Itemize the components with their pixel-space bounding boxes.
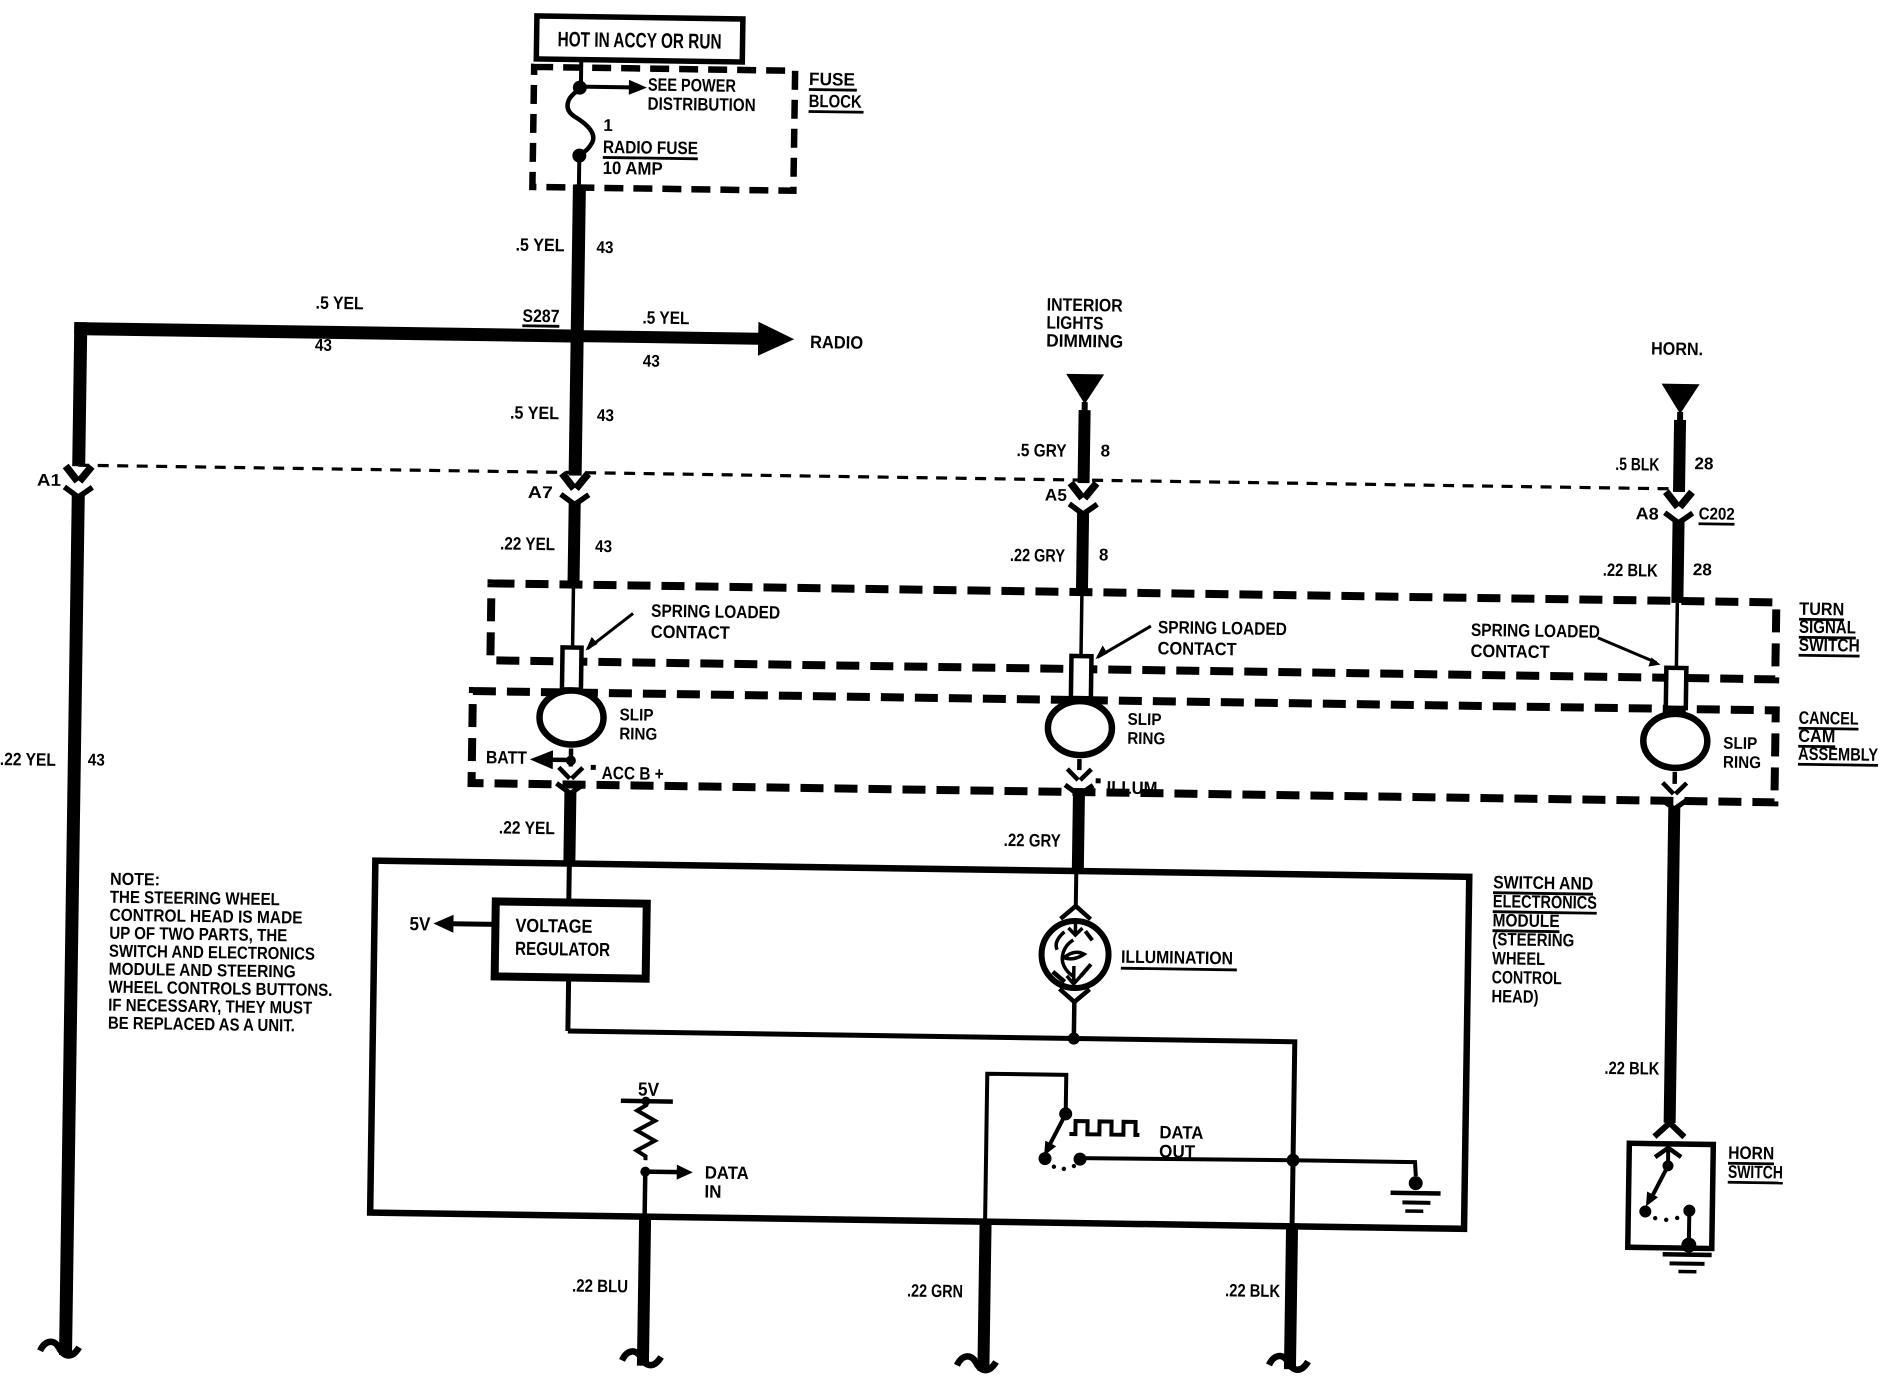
svg-text:5V: 5V: [409, 914, 431, 935]
svg-text:28: 28: [1694, 454, 1713, 473]
connector A8 / C202: [1636, 491, 1735, 524]
svg-text:HEAD): HEAD): [1491, 986, 1538, 1007]
wire: horizontal bus to right: [565, 1031, 1295, 1223]
node: data out junction: [1286, 1154, 1299, 1167]
switch S1 arm with arrowhead: [1044, 1114, 1066, 1156]
switch S1 contact node left: [1038, 1152, 1051, 1165]
node: fuse bottom junction: [572, 148, 586, 162]
wire: regulator bottom to bus: [565, 978, 571, 1031]
connector exit 3: [1660, 783, 1688, 809]
off-page hook left wire: [40, 1342, 79, 1356]
svg-text:A8: A8: [1636, 504, 1659, 523]
svg-text:SLIP: SLIP: [619, 705, 653, 725]
svg-text:C202: C202: [1699, 504, 1735, 524]
svg-text:1: 1: [603, 116, 613, 135]
label ILLUMINATION: [1121, 947, 1237, 970]
label spring loaded contact 2 + leader: [1095, 616, 1287, 662]
node: fuse top junction: [573, 80, 587, 94]
svg-text:43: 43: [596, 238, 613, 257]
switch S1 frame wires: [985, 1074, 1066, 1223]
svg-text:.5 YEL: .5 YEL: [510, 403, 559, 424]
connector exit 1 (ACC B+): [556, 767, 584, 793]
svg-text:CONTACT: CONTACT: [1470, 641, 1549, 662]
wire: .22 BLK to horn switch: [1670, 807, 1675, 1123]
label .5 YEL 43 (upper): [515, 235, 613, 257]
svg-text:.22 GRN: .22 GRN: [907, 1281, 963, 1302]
wire: lamp to bus + junction: [1068, 1002, 1081, 1045]
svg-text:FUSE: FUSE: [809, 69, 855, 90]
svg-text:.22 YEL: .22 YEL: [500, 533, 555, 554]
svg-text:RING: RING: [1723, 753, 1761, 773]
svg-text:ACC B +: ACC B +: [602, 763, 664, 784]
svg-text:RADIO: RADIO: [810, 332, 863, 353]
connector exit 2 (ILLUM): [1065, 769, 1093, 795]
horn switch pivot node: [1662, 1160, 1673, 1171]
wire: data in down through module edge (.22 BLU): [642, 1172, 647, 1217]
cancel cam assembly dashed box: [472, 691, 1776, 802]
node label * ILLUM: [1095, 777, 1157, 798]
svg-text:28: 28: [1693, 560, 1712, 579]
wire: .22 GRY to module: [1078, 793, 1079, 872]
svg-text:.22 BLU: .22 BLU: [572, 1276, 628, 1297]
5V rail: [621, 1079, 673, 1106]
svg-text:A5: A5: [1045, 486, 1067, 505]
svg-text:BATT: BATT: [486, 747, 527, 768]
svg-text:BE REPLACED AS A UNIT.: BE REPLACED AS A UNIT.: [108, 1013, 295, 1036]
switch and electronics module box: [370, 861, 1469, 1229]
fuse F1 element (S-curve): [567, 89, 594, 154]
label HORN SWITCH: [1728, 1143, 1784, 1183]
ground G1 (module internal): [1292, 1160, 1441, 1211]
data pulse waveform: [1069, 1121, 1139, 1135]
arrow DATA IN: [645, 1162, 749, 1203]
wire: thin into contact 3: [1676, 603, 1677, 671]
horn switch contact node left: [1639, 1205, 1651, 1217]
label spring loaded contact 1 + leader: [586, 600, 781, 654]
label TURN SIGNAL SWITCH: [1799, 599, 1861, 656]
horn switch input arrow: [1655, 1148, 1681, 1164]
arrow BATT tap: [486, 747, 576, 769]
slip ring 2: [1048, 701, 1113, 756]
label spring loaded contact 3 + leader: [1470, 620, 1661, 667]
wire stub below slip ring 2: [1077, 759, 1082, 770]
svg-text:BLOCK: BLOCK: [809, 91, 862, 112]
svg-text:SPRING LOADED: SPRING LOADED: [1158, 617, 1287, 639]
svg-text:RADIO FUSE: RADIO FUSE: [603, 137, 698, 158]
off-page source: INTERIOR LIGHTS DIMMING: [1046, 295, 1124, 352]
wire: S287 left to corner, .5 YEL: [74, 329, 577, 336]
label SWITCH AND ELECTRONICS MODULE (STEERING WHEEL CONTROL HEAD): [1491, 872, 1597, 1008]
wire: .22 GRY A5 to switch: [1082, 512, 1083, 594]
connector A1: [37, 466, 93, 498]
svg-text:IN: IN: [704, 1182, 721, 1202]
note text block: [108, 869, 334, 1036]
svg-text:CONTROL: CONTROL: [1492, 967, 1562, 988]
svg-text:.22 BLK: .22 BLK: [1225, 1280, 1280, 1301]
slip ring 1: [539, 690, 604, 745]
svg-text:REGULATOR: REGULATOR: [515, 939, 611, 961]
wire stub below slip ring 3: [1672, 772, 1677, 784]
svg-text:ILLUMINATION: ILLUMINATION: [1121, 947, 1233, 969]
wire: .5 BLK to A8: [1679, 420, 1680, 492]
wire: fuse to box edge: [577, 156, 581, 187]
node: resistor bottom: [640, 1167, 650, 1177]
svg-text:RING: RING: [1127, 729, 1165, 749]
svg-text:.22 GRY: .22 GRY: [1004, 830, 1061, 851]
wire: .5 YEL S287 to A7: [575, 336, 577, 475]
svg-text:.5 YEL: .5 YEL: [515, 235, 564, 256]
label CANCEL CAM ASSEMBLY: [1798, 708, 1879, 766]
svg-text:S287: S287: [522, 306, 559, 327]
horn switch contact node right: [1683, 1205, 1696, 1244]
svg-text:DATA: DATA: [705, 1163, 749, 1184]
svg-text:.22 GRY: .22 GRY: [1010, 545, 1065, 566]
svg-text:A1: A1: [37, 471, 61, 490]
arrow: SEE POWER DISTRIBUTION: [580, 74, 756, 116]
svg-text:SLIP: SLIP: [1127, 710, 1161, 730]
svg-text:SLIP: SLIP: [1723, 734, 1757, 754]
fuse block dashed box: [532, 67, 795, 191]
svg-text:.22 BLK: .22 BLK: [1603, 560, 1658, 581]
svg-text:43: 43: [88, 750, 105, 769]
svg-text:.22 YEL: .22 YEL: [499, 817, 555, 838]
wire: switch to bus junction: [1080, 1157, 1293, 1161]
label FUSE BLOCK: [809, 69, 865, 112]
svg-text:43: 43: [595, 537, 612, 556]
wire: thin into contact 1: [571, 587, 575, 651]
wire: .22 YEL to module: [569, 792, 570, 865]
svg-text:DISTRIBUTION: DISTRIBUTION: [647, 94, 755, 116]
wire: .5 GRY to A5: [1084, 410, 1085, 483]
horn switch arm with arrowhead: [1646, 1166, 1668, 1207]
svg-text:RING: RING: [619, 724, 657, 744]
wire: left .22 YEL down: [66, 495, 79, 1355]
horn wire end chevron: [1654, 1123, 1684, 1137]
svg-text:43: 43: [597, 406, 614, 425]
svg-text:VOLTAGE: VOLTAGE: [515, 916, 592, 938]
label DATA OUT: [1159, 1122, 1204, 1162]
svg-text:A7: A7: [528, 483, 553, 502]
svg-text:SPRING LOADED: SPRING LOADED: [651, 601, 780, 623]
illumination lamp L1: [1041, 906, 1109, 1003]
spring loaded contact 2: [1071, 656, 1092, 698]
svg-text:.5 GRY: .5 GRY: [1016, 440, 1066, 461]
svg-text:CONTACT: CONTACT: [1157, 638, 1236, 659]
svg-text:.5 YEL: .5 YEL: [642, 308, 689, 329]
svg-text:HORN: HORN: [1728, 1143, 1774, 1164]
svg-text:HOT IN ACCY OR RUN: HOT IN ACCY OR RUN: [557, 28, 721, 53]
wire: .22 YEL A7 to switch: [573, 503, 574, 587]
wire stub below slip ring 1: [569, 749, 574, 767]
svg-text:ILLUM: ILLUM: [1106, 777, 1157, 798]
wire: left vertical down to A1: [79, 322, 81, 466]
voltage regulator U1: [495, 901, 647, 978]
turn signal switch dashed box: [490, 583, 1776, 679]
off-page source: HORN: [1650, 338, 1703, 424]
wire: .5 YEL fuse block to S287: [577, 185, 579, 336]
svg-text:CONTACT: CONTACT: [651, 622, 730, 643]
svg-text:8: 8: [1100, 441, 1110, 460]
svg-text:.22 BLK: .22 BLK: [1604, 1058, 1659, 1079]
spring loaded contact 1: [562, 647, 582, 689]
switch S1 pivot node: [1059, 1107, 1072, 1120]
wire: .22 GRN below module: [983, 1219, 985, 1371]
horn switch dotted travel arc: [1653, 1216, 1657, 1220]
wire: lamp into module: [1074, 871, 1079, 908]
svg-text:WHEEL: WHEEL: [1492, 948, 1545, 969]
svg-text:10 AMP: 10 AMP: [603, 158, 663, 179]
resistor R1: [636, 1101, 655, 1160]
horn switch box: [1628, 1143, 1714, 1248]
svg-text:.22 YEL: .22 YEL: [0, 749, 56, 770]
node label * ACC B +: [591, 763, 664, 784]
svg-text:8: 8: [1099, 545, 1109, 564]
wire: into voltage regulator: [566, 864, 572, 903]
wire: thin into contact 2: [1079, 594, 1083, 659]
svg-text:SEE POWER: SEE POWER: [648, 75, 736, 96]
wire: .22 BLK below module: [1290, 1223, 1292, 1369]
connector A7: [528, 473, 589, 505]
dashed connector line A1-A5-A8: [78, 465, 1676, 489]
switch S1 contact node right: [1073, 1153, 1086, 1166]
node S287 (splice): [522, 306, 586, 345]
svg-text:HORN.: HORN.: [1651, 338, 1703, 359]
switch S1 dotted travel arc: [1052, 1164, 1056, 1168]
slip ring 3: [1643, 713, 1708, 768]
connector A5: [1045, 483, 1098, 515]
power source box: HOT IN ACCY OR RUN: [536, 16, 743, 62]
svg-text:DATA: DATA: [1159, 1122, 1203, 1143]
svg-text:.5 YEL: .5 YEL: [315, 293, 363, 314]
arrow: to RADIO: [577, 319, 863, 357]
svg-text:DIMMING: DIMMING: [1046, 331, 1123, 352]
svg-text:43: 43: [643, 352, 660, 371]
svg-text:.5 BLK: .5 BLK: [1615, 454, 1659, 475]
arrow 5V out of regulator: [409, 914, 495, 936]
svg-text:43: 43: [315, 336, 332, 355]
ground G2 (horn switch): [1662, 1237, 1711, 1272]
spring loaded contact 3: [1666, 668, 1687, 708]
wire: HOT box to fuse: [579, 60, 583, 87]
svg-text:SPRING LOADED: SPRING LOADED: [1471, 620, 1600, 642]
fuse labels: 1 RADIO FUSE 10 AMP: [603, 116, 699, 179]
wire: .22 BLK A8 to switch: [1677, 521, 1678, 603]
